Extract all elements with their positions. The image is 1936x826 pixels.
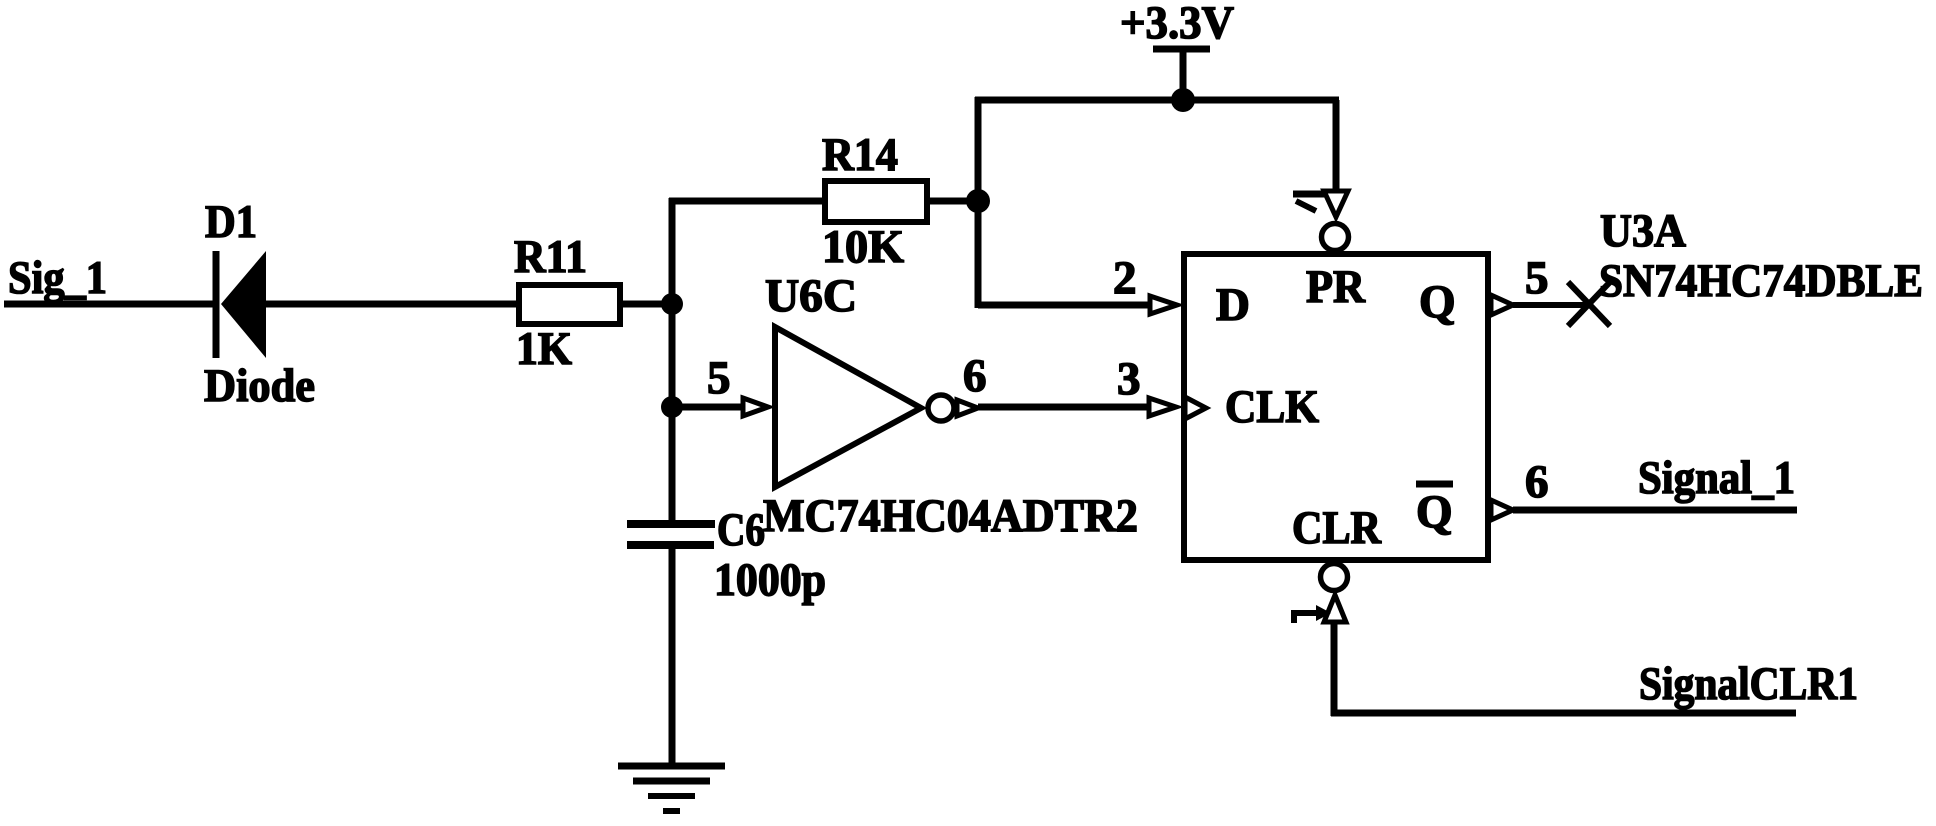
wire bbox=[1513, 507, 1797, 514]
preset arrow PR bbox=[1293, 191, 1348, 217]
pin arrow inverter input bbox=[743, 398, 768, 416]
wire bbox=[978, 404, 1148, 411]
wire bbox=[1513, 302, 1592, 308]
pin arrow Q output bbox=[1491, 295, 1513, 315]
wire bbox=[1333, 100, 1340, 193]
diode D1 bbox=[216, 251, 266, 358]
no-connect X bbox=[1568, 282, 1610, 326]
svg-text:R11: R11 bbox=[514, 231, 587, 283]
svg-text:5: 5 bbox=[1525, 252, 1549, 304]
wire bbox=[669, 198, 822, 205]
clear arrow CLR bbox=[1294, 595, 1346, 623]
svg-text:1K: 1K bbox=[516, 323, 572, 375]
wire bbox=[623, 301, 675, 308]
wire bbox=[669, 549, 676, 766]
svg-text:10K: 10K bbox=[822, 221, 904, 273]
svg-text:CLK: CLK bbox=[1225, 381, 1319, 433]
resistor R11 bbox=[519, 285, 620, 324]
svg-text:+3.3V: +3.3V bbox=[1120, 0, 1234, 49]
junction bbox=[661, 293, 683, 315]
svg-text:SignalCLR1: SignalCLR1 bbox=[1639, 658, 1858, 710]
pin arrow CLK wire end bbox=[1149, 398, 1176, 416]
svg-text:U6C: U6C bbox=[765, 270, 857, 322]
ground bbox=[618, 766, 725, 811]
svg-text:CLR: CLR bbox=[1292, 502, 1382, 554]
svg-text:6: 6 bbox=[963, 350, 987, 402]
svg-text:6: 6 bbox=[1525, 456, 1549, 508]
flip-flop U3A box bbox=[1184, 254, 1488, 560]
pin arrow Qbar output bbox=[1491, 500, 1513, 520]
svg-text:R14: R14 bbox=[822, 129, 898, 181]
wire bbox=[266, 301, 519, 308]
wire bbox=[1331, 710, 1796, 717]
svg-text:U3A: U3A bbox=[1600, 205, 1686, 257]
junction bbox=[966, 189, 990, 213]
wire bbox=[672, 404, 742, 411]
PR bubble bbox=[1322, 224, 1349, 251]
wire bbox=[930, 198, 980, 205]
svg-text:1000p: 1000p bbox=[714, 554, 826, 606]
svg-text:D1: D1 bbox=[205, 196, 257, 248]
svg-text:2: 2 bbox=[1113, 252, 1137, 304]
pin arrow inverter output bbox=[957, 400, 978, 416]
pin arrow D bbox=[1150, 296, 1177, 314]
svg-text:C6: C6 bbox=[717, 504, 765, 556]
wire bbox=[975, 97, 982, 308]
wire bbox=[4, 301, 218, 308]
svg-text:3: 3 bbox=[1117, 353, 1141, 405]
CLR bubble bbox=[1321, 564, 1348, 591]
junction bbox=[661, 396, 683, 418]
resistor R14 bbox=[825, 181, 927, 222]
svg-text:5: 5 bbox=[707, 352, 731, 404]
svg-text:SN74HC74DBLE: SN74HC74DBLE bbox=[1599, 255, 1923, 307]
capacitor C6 bbox=[627, 524, 715, 545]
wire bbox=[669, 198, 676, 521]
svg-text:Diode: Diode bbox=[204, 360, 315, 412]
junction bbox=[1171, 88, 1195, 112]
svg-text:MC74HC04ADTR2: MC74HC04ADTR2 bbox=[763, 490, 1138, 542]
svg-text:Sig_1: Sig_1 bbox=[8, 252, 107, 304]
power +3.3V bbox=[1120, 0, 1234, 100]
wire bbox=[975, 97, 1339, 104]
pin name Qbar bbox=[1416, 484, 1453, 538]
clock chevron bbox=[1185, 397, 1206, 419]
svg-text:PR: PR bbox=[1306, 261, 1366, 313]
wire bbox=[1331, 620, 1338, 716]
wire bbox=[978, 302, 1149, 309]
inverter U6C bbox=[775, 327, 954, 487]
svg-text:Q: Q bbox=[1419, 276, 1456, 328]
svg-text:Signal_1: Signal_1 bbox=[1638, 452, 1795, 504]
svg-text:D: D bbox=[1216, 279, 1250, 331]
svg-text:Q: Q bbox=[1416, 486, 1453, 538]
